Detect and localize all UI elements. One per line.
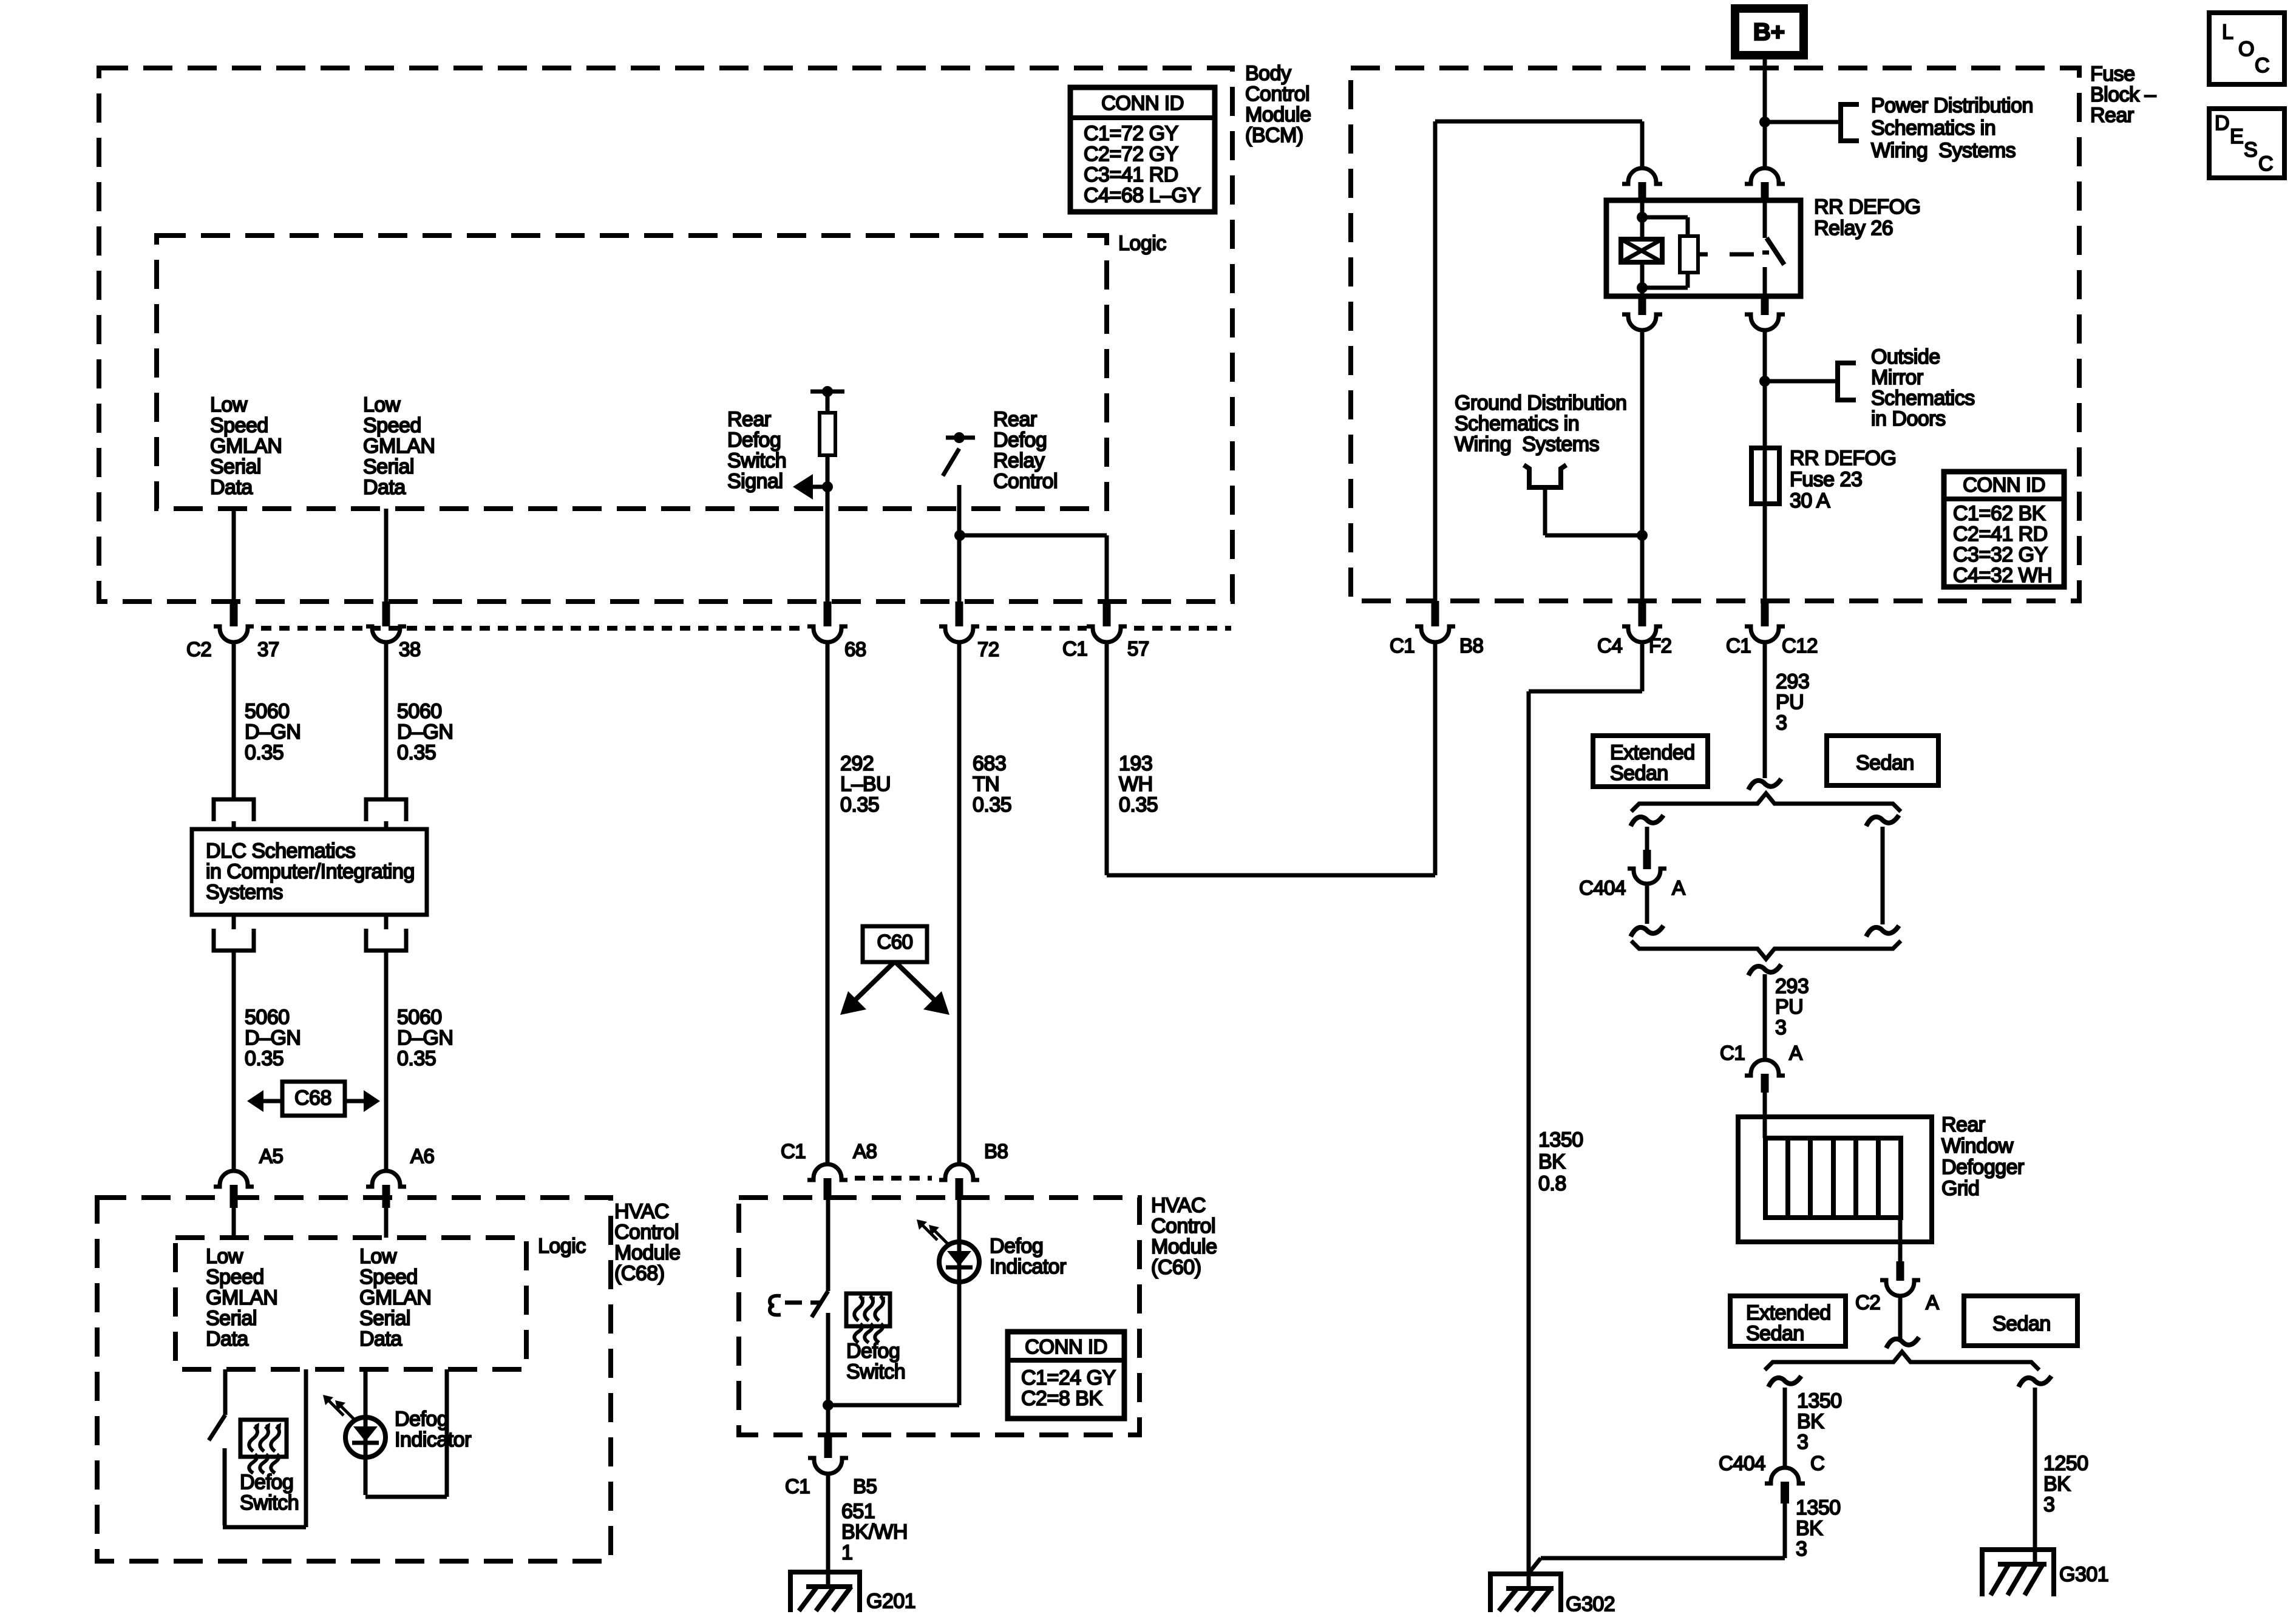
- svg-text:Rear: Rear: [2090, 104, 2134, 127]
- svg-text:1250: 1250: [2043, 1452, 2088, 1475]
- svg-text:193: 193: [1119, 752, 1152, 775]
- svg-text:Serial: Serial: [206, 1307, 257, 1330]
- svg-text:Systems: Systems: [206, 881, 283, 904]
- svg-text:1350: 1350: [1796, 1496, 1841, 1519]
- svg-text:(BCM): (BCM): [1245, 124, 1303, 147]
- svg-text:Module: Module: [614, 1241, 681, 1264]
- svg-text:Switch: Switch: [727, 449, 786, 472]
- svg-text:0.35: 0.35: [840, 793, 879, 816]
- svg-text:Indicator: Indicator: [395, 1428, 471, 1451]
- svg-text:Low: Low: [359, 1245, 397, 1268]
- svg-text:A8: A8: [853, 1140, 877, 1162]
- svg-text:C3=32 GY: C3=32 GY: [1953, 543, 2048, 566]
- svg-text:GMLAN: GMLAN: [359, 1286, 431, 1309]
- svg-text:Control: Control: [614, 1221, 679, 1244]
- svg-text:A5: A5: [259, 1145, 283, 1167]
- svg-text:RR DEFOG: RR DEFOG: [1814, 195, 1920, 219]
- svg-text:3: 3: [1776, 711, 1787, 734]
- svg-text:57: 57: [1127, 637, 1149, 660]
- svg-text:BK: BK: [1797, 1410, 1824, 1433]
- svg-text:Extended: Extended: [1746, 1301, 1831, 1324]
- svg-text:C68: C68: [294, 1086, 331, 1110]
- svg-text:Serial: Serial: [359, 1307, 410, 1330]
- svg-text:3: 3: [1797, 1431, 1808, 1454]
- svg-text:C4=68 L–GY: C4=68 L–GY: [1084, 184, 1201, 207]
- svg-text:D–GN: D–GN: [397, 1026, 453, 1049]
- svg-text:A: A: [1789, 1042, 1802, 1064]
- svg-text:C2: C2: [186, 638, 211, 660]
- svg-text:Indicator: Indicator: [990, 1255, 1066, 1278]
- svg-text:Mirror: Mirror: [1871, 366, 1923, 389]
- svg-text:C60: C60: [877, 931, 912, 953]
- svg-text:Serial: Serial: [210, 455, 261, 478]
- svg-text:Speed: Speed: [359, 1266, 418, 1289]
- svg-text:C1: C1: [1390, 634, 1415, 657]
- svg-text:0.35: 0.35: [245, 741, 284, 764]
- svg-text:Rear: Rear: [1941, 1113, 1985, 1136]
- svg-text:0.8: 0.8: [1538, 1172, 1566, 1195]
- svg-text:A6: A6: [410, 1145, 434, 1167]
- svg-text:GMLAN: GMLAN: [206, 1286, 277, 1309]
- svg-text:C1: C1: [1726, 634, 1751, 657]
- svg-text:GMLAN: GMLAN: [210, 435, 282, 458]
- svg-text:1350: 1350: [1797, 1389, 1842, 1412]
- svg-text:Defog: Defog: [395, 1408, 448, 1431]
- svg-text:Sedan: Sedan: [1746, 1322, 1804, 1345]
- svg-text:5060: 5060: [397, 700, 442, 723]
- svg-text:CONN ID: CONN ID: [1963, 473, 2045, 496]
- svg-text:Speed: Speed: [206, 1266, 264, 1289]
- svg-text:in Computer/Integrating: in Computer/Integrating: [206, 860, 415, 883]
- svg-text:Data: Data: [359, 1327, 402, 1351]
- svg-text:72: 72: [977, 638, 999, 660]
- svg-text:D–GN: D–GN: [245, 720, 301, 744]
- svg-text:BK/WH: BK/WH: [841, 1520, 908, 1544]
- svg-text:Schematics: Schematics: [1871, 387, 1975, 410]
- svg-text:3: 3: [2043, 1493, 2054, 1516]
- svg-text:Data: Data: [206, 1327, 248, 1351]
- svg-text:A: A: [1926, 1291, 1939, 1314]
- svg-text:38: 38: [399, 638, 421, 660]
- svg-text:Defogger: Defogger: [1941, 1156, 2024, 1179]
- svg-text:Speed: Speed: [363, 414, 421, 437]
- svg-text:5060: 5060: [397, 1006, 442, 1029]
- svg-text:Wiring Systems: Wiring Systems: [1871, 139, 2016, 162]
- svg-text:Signal: Signal: [727, 470, 783, 493]
- svg-text:C4=32 WH: C4=32 WH: [1953, 564, 2052, 587]
- svg-text:Wiring Systems: Wiring Systems: [1455, 433, 1599, 456]
- svg-text:B8: B8: [1459, 634, 1483, 657]
- svg-text:G301: G301: [2059, 1563, 2108, 1586]
- svg-text:C1: C1: [1720, 1042, 1745, 1064]
- svg-text:683: 683: [973, 752, 1006, 775]
- svg-text:Data: Data: [363, 476, 406, 499]
- svg-text:0.35: 0.35: [397, 1047, 436, 1070]
- svg-text:C2=8 BK: C2=8 BK: [1021, 1387, 1102, 1410]
- svg-text:C1=72 GY: C1=72 GY: [1084, 122, 1178, 145]
- svg-text:0.35: 0.35: [245, 1047, 284, 1070]
- svg-text:C404: C404: [1719, 1452, 1765, 1474]
- svg-text:Outside: Outside: [1871, 345, 1940, 368]
- svg-text:3: 3: [1796, 1537, 1807, 1561]
- svg-text:B8: B8: [984, 1140, 1008, 1162]
- svg-text:Low: Low: [363, 393, 401, 416]
- svg-text:(C68): (C68): [614, 1262, 665, 1285]
- svg-text:37: 37: [257, 638, 279, 660]
- svg-text:Sedan: Sedan: [1856, 751, 1914, 775]
- svg-text:C: C: [1810, 1452, 1824, 1474]
- svg-text:C4: C4: [1597, 634, 1622, 657]
- svg-text:C2: C2: [1855, 1291, 1880, 1314]
- svg-text:5060: 5060: [245, 1006, 290, 1029]
- svg-text:Switch: Switch: [240, 1491, 299, 1514]
- svg-text:Module: Module: [1151, 1235, 1217, 1258]
- svg-text:C1: C1: [1062, 637, 1087, 660]
- svg-text:Window: Window: [1941, 1134, 2014, 1158]
- svg-text:Relay: Relay: [993, 449, 1045, 472]
- svg-text:C2=72 GY: C2=72 GY: [1084, 143, 1178, 166]
- svg-text:in Doors: in Doors: [1871, 407, 1946, 430]
- svg-text:Fuse: Fuse: [2090, 63, 2135, 86]
- svg-text:C1=62 BK: C1=62 BK: [1953, 502, 2046, 525]
- svg-text:D: D: [2215, 112, 2229, 135]
- svg-text:TN: TN: [973, 773, 999, 796]
- svg-text:L: L: [2222, 21, 2233, 44]
- svg-text:BK: BK: [1796, 1517, 1823, 1540]
- svg-text:30 A: 30 A: [1790, 489, 1830, 512]
- svg-text:PU: PU: [1776, 691, 1804, 714]
- svg-text:Logic: Logic: [1118, 232, 1166, 255]
- svg-text:Serial: Serial: [363, 455, 414, 478]
- svg-text:D–GN: D–GN: [245, 1026, 301, 1049]
- svg-text:Switch: Switch: [846, 1360, 905, 1383]
- svg-text:Extended: Extended: [1610, 741, 1695, 764]
- svg-text:HVAC: HVAC: [614, 1200, 669, 1223]
- svg-text:Control: Control: [1245, 83, 1309, 106]
- svg-text:Power Distribution: Power Distribution: [1871, 94, 2033, 117]
- svg-text:CONN ID: CONN ID: [1025, 1335, 1107, 1358]
- svg-text:Control: Control: [993, 470, 1058, 493]
- svg-text:C: C: [2255, 54, 2269, 77]
- svg-text:3: 3: [1775, 1016, 1786, 1039]
- svg-text:BK: BK: [2043, 1473, 2071, 1496]
- svg-text:Grid: Grid: [1941, 1177, 1979, 1200]
- svg-text:Ground Distribution: Ground Distribution: [1455, 392, 1626, 415]
- svg-text:293: 293: [1775, 975, 1809, 998]
- svg-text:GMLAN: GMLAN: [363, 435, 435, 458]
- svg-text:B5: B5: [853, 1475, 877, 1497]
- svg-text:1350: 1350: [1538, 1128, 1583, 1151]
- svg-text:Low: Low: [206, 1245, 243, 1268]
- svg-text:Defog: Defog: [993, 429, 1047, 452]
- svg-text:C2=41 RD: C2=41 RD: [1953, 523, 2048, 546]
- svg-text:Logic: Logic: [538, 1235, 586, 1258]
- svg-text:E: E: [2230, 125, 2243, 148]
- svg-text:C1: C1: [785, 1475, 810, 1497]
- svg-text:(C60): (C60): [1151, 1256, 1201, 1279]
- svg-text:DLC Schematics: DLC Schematics: [206, 839, 355, 863]
- svg-text:0.35: 0.35: [397, 741, 436, 764]
- svg-text:Relay 26: Relay 26: [1814, 217, 1893, 240]
- svg-text:WH: WH: [1119, 773, 1153, 796]
- svg-text:68: 68: [844, 638, 866, 660]
- svg-text:PU: PU: [1775, 995, 1803, 1019]
- svg-text:F2: F2: [1649, 634, 1672, 657]
- svg-text:292: 292: [840, 752, 874, 775]
- svg-text:Defog: Defog: [990, 1235, 1043, 1258]
- svg-text:HVAC: HVAC: [1151, 1194, 1206, 1217]
- svg-text:0.35: 0.35: [973, 793, 1011, 816]
- svg-text:G201: G201: [866, 1590, 915, 1613]
- svg-text:Schematics in: Schematics in: [1455, 412, 1579, 435]
- svg-text:Defog: Defog: [846, 1340, 900, 1363]
- svg-text:Module: Module: [1245, 103, 1311, 126]
- svg-text:BK: BK: [1538, 1150, 1566, 1173]
- svg-text:Defog: Defog: [727, 429, 781, 452]
- svg-text:Low: Low: [210, 393, 248, 416]
- svg-text:C: C: [2258, 152, 2273, 175]
- svg-text:L–BU: L–BU: [840, 773, 891, 796]
- svg-text:Speed: Speed: [210, 414, 268, 437]
- svg-text:RR DEFOG: RR DEFOG: [1790, 447, 1896, 470]
- svg-text:5060: 5060: [245, 700, 290, 723]
- svg-text:C1: C1: [781, 1140, 806, 1162]
- svg-text:Data: Data: [210, 476, 253, 499]
- svg-text:1: 1: [841, 1541, 852, 1564]
- svg-text:C12: C12: [1782, 634, 1818, 657]
- svg-text:0.35: 0.35: [1119, 793, 1158, 816]
- svg-text:O: O: [2238, 38, 2254, 61]
- svg-text:293: 293: [1776, 670, 1809, 693]
- svg-text:Rear: Rear: [727, 408, 771, 431]
- svg-text:Defog: Defog: [240, 1471, 293, 1494]
- svg-text:B+: B+: [1753, 19, 1785, 46]
- svg-text:C3=41 RD: C3=41 RD: [1084, 163, 1178, 186]
- svg-text:Fuse 23: Fuse 23: [1790, 468, 1862, 491]
- svg-text:Schematics in: Schematics in: [1871, 117, 1995, 140]
- svg-text:Body: Body: [1245, 62, 1291, 85]
- svg-text:Sedan: Sedan: [1992, 1312, 2051, 1335]
- svg-text:Control: Control: [1151, 1215, 1215, 1238]
- svg-text:S: S: [2244, 138, 2257, 161]
- svg-text:A: A: [1672, 876, 1685, 899]
- svg-text:G302: G302: [1566, 1593, 1615, 1616]
- svg-text:C1=24 GY: C1=24 GY: [1021, 1366, 1116, 1389]
- svg-text:CONN ID: CONN ID: [1101, 92, 1184, 114]
- svg-text:651: 651: [841, 1500, 875, 1523]
- svg-text:Sedan: Sedan: [1610, 762, 1668, 785]
- svg-text:C404: C404: [1579, 876, 1626, 899]
- svg-text:Rear: Rear: [993, 408, 1037, 431]
- svg-text:D–GN: D–GN: [397, 720, 453, 744]
- svg-text:Block –: Block –: [2090, 83, 2156, 106]
